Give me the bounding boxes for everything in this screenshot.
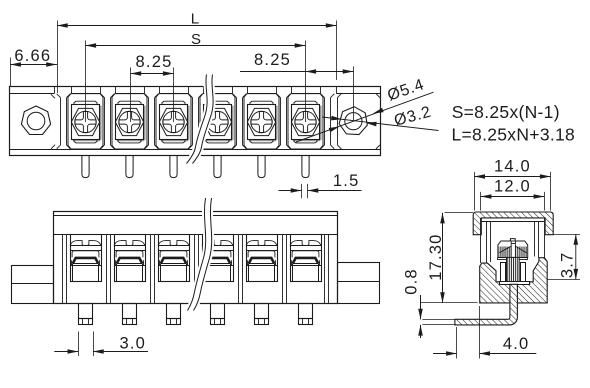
svg-text:0.8: 0.8 bbox=[402, 268, 420, 295]
svg-text:L=8.25xN+3.18: L=8.25xN+3.18 bbox=[452, 125, 576, 145]
svg-text:L: L bbox=[191, 10, 199, 27]
svg-text:3.7: 3.7 bbox=[559, 252, 577, 279]
svg-text:4.0: 4.0 bbox=[503, 335, 530, 353]
svg-text:S: S bbox=[191, 31, 201, 48]
svg-text:8.25: 8.25 bbox=[254, 51, 291, 69]
svg-text:3.0: 3.0 bbox=[120, 334, 147, 352]
svg-text:12.0: 12.0 bbox=[494, 178, 531, 196]
svg-text:1.5: 1.5 bbox=[333, 172, 360, 190]
svg-text:17.30: 17.30 bbox=[427, 233, 445, 280]
svg-text:8.25: 8.25 bbox=[136, 53, 173, 71]
svg-text:S=8.25x(N-1): S=8.25x(N-1) bbox=[452, 102, 560, 122]
svg-text:14.0: 14.0 bbox=[494, 157, 531, 175]
svg-text:6.66: 6.66 bbox=[14, 47, 51, 65]
